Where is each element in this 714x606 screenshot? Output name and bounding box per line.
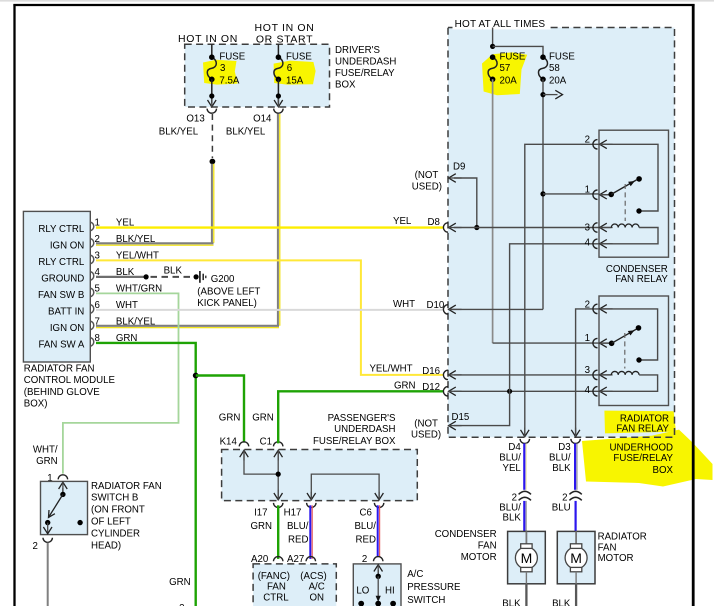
module pin 7 (IGN ON) — [50, 317, 156, 334]
radiator fan switch B box — [41, 481, 88, 534]
wire YEL/WHT pin 3 to D16 — [96, 260, 444, 375]
svg-text:HOT IN ON: HOT IN ON — [255, 22, 315, 34]
splice dot at G200 — [194, 274, 199, 279]
inline connector 2 on radiator motor wire — [562, 491, 582, 503]
radiator fan relay pin 1 — [585, 333, 613, 348]
svg-text:YEL: YEL — [393, 216, 412, 227]
wire radiator relay pin 2 down to D3 — [576, 309, 599, 436]
label UNDERHOOD FUSE/RELAY BOX (highlighted) — [609, 442, 673, 476]
internal wiring K14/C1 to I17 — [240, 450, 283, 499]
battery feed wire into fuse 57 — [492, 28, 494, 47]
wire condenser relay pin 2 down to D4 — [525, 144, 599, 436]
svg-text:I17: I17 — [254, 508, 267, 519]
svg-text:RLY CTRL: RLY CTRL — [38, 224, 85, 235]
connector O13 exit of driver's box — [207, 99, 216, 113]
fuse 3 (7.5A) — [207, 44, 216, 103]
svg-text:USED): USED) — [412, 182, 442, 193]
junction dot fuse 58 to condenser relay pin 1 — [540, 191, 545, 196]
condenser fan relay pin 1 — [585, 185, 613, 200]
svg-text:OR START: OR START — [256, 33, 313, 45]
radiator fan motor — [557, 531, 595, 606]
connector D3 at box bottom — [571, 439, 580, 444]
svg-text:RADIATOR FAN: RADIATOR FAN — [24, 363, 95, 374]
module pin 2 (IGN ON) — [50, 234, 156, 251]
label DRIVER'S UNDERDASH FUSE/RELAY BOX — [335, 45, 396, 91]
svg-text:BLU/: BLU/ — [549, 453, 571, 464]
svg-text:3: 3 — [585, 365, 590, 376]
svg-text:UNDERHOOD: UNDERHOOD — [609, 442, 673, 453]
condenser fan relay pin 2 — [585, 135, 613, 150]
wire BLU to radiator fan motor — [574, 501, 576, 531]
connector D4 at box bottom — [520, 439, 529, 444]
fuse 57 value label — [500, 52, 526, 87]
module pin 4 (GROUND) — [41, 267, 135, 284]
label D4 / BLU/YEL — [499, 442, 521, 474]
label CONDENSER FAN RELAY — [606, 264, 668, 285]
connector D9 (not used) — [449, 174, 462, 183]
svg-text:(NOT: (NOT — [415, 170, 439, 181]
radiator fan switch B internals — [43, 482, 82, 534]
svg-text:FAN RELAY: FAN RELAY — [616, 423, 669, 434]
wire BLU/RED H17 to A27 — [309, 505, 311, 559]
junction dot above fuse 57 — [490, 44, 495, 49]
svg-text:FAN RELAY: FAN RELAY — [615, 274, 668, 285]
svg-text:2: 2 — [33, 541, 38, 552]
svg-text:HEAD): HEAD) — [91, 540, 121, 551]
svg-text:4: 4 — [585, 385, 591, 396]
svg-text:BOX: BOX — [653, 465, 674, 476]
A/C pressure switch box — [353, 564, 401, 606]
module pin 1 (RLY CTRL) — [38, 218, 134, 235]
svg-text:RADIATOR FAN: RADIATOR FAN — [91, 481, 162, 492]
passenger's underdash fuse/relay box outline — [222, 450, 418, 501]
wire BLK dashed to G200 — [151, 276, 193, 278]
svg-text:1: 1 — [585, 333, 590, 344]
label BLU/BLK below connector (condenser) — [499, 502, 521, 523]
labels (FANC) FAN CTRL / (ACS) A/C ON — [258, 571, 327, 604]
svg-text:CONDENSER: CONDENSER — [435, 529, 497, 540]
svg-text:IGN ON: IGN ON — [50, 241, 84, 252]
svg-text:(ABOVE LEFT: (ABOVE LEFT — [197, 287, 260, 298]
condenser fan motor — [508, 531, 546, 606]
svg-text:RADIATOR: RADIATOR — [598, 532, 647, 543]
svg-text:FUSE: FUSE — [286, 52, 312, 63]
A/C pressure switch internals — [358, 565, 396, 606]
labels LO / HI — [356, 585, 394, 596]
svg-text:DRIVER'S: DRIVER'S — [335, 45, 380, 56]
svg-text:BLK: BLK — [552, 598, 571, 606]
connector D8 — [443, 223, 461, 232]
wire D8 to condenser fan relay pin 3 — [454, 227, 599, 229]
svg-text:FUSE: FUSE — [500, 52, 526, 63]
svg-text:FAN: FAN — [267, 582, 286, 593]
svg-text:GRN: GRN — [394, 380, 416, 391]
svg-text:15A: 15A — [286, 75, 304, 86]
connector C6 — [374, 503, 383, 508]
radiator fan relay coil — [600, 371, 658, 391]
module pin 5 (FAN SW B) — [38, 284, 162, 301]
top gray strip — [0, 0, 714, 2]
svg-text:GRN: GRN — [169, 577, 191, 588]
svg-text:BLU/: BLU/ — [287, 521, 309, 532]
svg-text:D9: D9 — [453, 162, 465, 173]
svg-text:OF LEFT: OF LEFT — [91, 517, 131, 528]
svg-text:20A: 20A — [549, 75, 567, 86]
wire WHT/GRN pin 5 to radiator fan switch B — [63, 293, 179, 473]
label YEL/WHT / D16 — [369, 364, 440, 378]
connector O14 exit of driver's box — [274, 99, 283, 113]
wire to fuse 58 — [493, 46, 543, 57]
connector A20 — [274, 557, 283, 562]
label RADIATOR FAN CONTROL MODULE (BEHIND GLOVE BOX) — [24, 363, 116, 409]
splice dot on O13 wire — [210, 159, 216, 165]
connector pin 2 of radiator fan switch B — [43, 538, 52, 543]
svg-text:CTRL: CTRL — [263, 592, 289, 603]
svg-text:YEL/WHT: YEL/WHT — [369, 364, 412, 375]
svg-text:BLK/YEL: BLK/YEL — [116, 234, 156, 245]
svg-text:HI: HI — [385, 585, 395, 596]
svg-text:K14: K14 — [220, 437, 238, 448]
wire GRN C1 riser to D12 — [278, 391, 443, 443]
module pin 6 (BATT IN) — [48, 300, 138, 317]
ground G200 symbol — [200, 271, 206, 283]
internal wiring H17 to C6 bridge — [307, 474, 383, 500]
svg-text:MOTOR: MOTOR — [598, 553, 634, 564]
radiator fan relay box — [599, 296, 669, 406]
svg-text:C1: C1 — [260, 437, 272, 448]
wire BLU/RED C6 to A/C pressure switch — [377, 505, 379, 556]
svg-text:BLK/YEL: BLK/YEL — [159, 127, 199, 138]
splice dot on ground wire — [144, 274, 149, 279]
svg-text:BLK/YEL: BLK/YEL — [116, 317, 156, 328]
wire fuse 58 output down — [542, 79, 544, 309]
wire BLK/YEL from O14 to module pin 7 — [96, 114, 280, 328]
wire BLU/YEL from D4 — [523, 443, 525, 489]
svg-text:M: M — [521, 550, 533, 566]
label RADIATOR FAN RELAY (highlighted) — [616, 414, 669, 435]
svg-text:(NOT: (NOT — [414, 419, 438, 430]
fuse 6 value label — [286, 52, 312, 87]
svg-text:FUSE: FUSE — [549, 52, 575, 63]
svg-text:(ON FRONT: (ON FRONT — [91, 505, 145, 516]
label RADIATOR FAN MOTOR — [598, 532, 647, 565]
svg-text:A/C: A/C — [407, 569, 423, 580]
yellow highlight over UNDERHOOD FUSE/RELAY BOX label — [582, 430, 713, 487]
label PASSENGER'S UNDERDASH FUSE/RELAY BOX — [313, 413, 396, 447]
svg-text:M: M — [570, 550, 582, 566]
condenser fan relay internal contact wiring — [600, 144, 658, 221]
svg-text:USED): USED) — [411, 430, 441, 441]
svg-text:HOT AT ALL TIMES: HOT AT ALL TIMES — [455, 19, 546, 30]
svg-text:58: 58 — [549, 63, 560, 74]
condenser fan relay box — [599, 130, 669, 257]
svg-text:3: 3 — [585, 222, 590, 233]
connector pin 1 of radiator fan switch B — [58, 475, 67, 480]
svg-text:3: 3 — [220, 63, 225, 74]
svg-text:57: 57 — [500, 63, 511, 74]
label HOT IN ON OR START (fuse 6) — [255, 22, 315, 45]
yellow highlight over fuse 6 — [274, 61, 316, 85]
fuse 57 (20A) — [488, 57, 497, 79]
label A/C PRESSURE SWITCH (BEHIND ...) — [407, 569, 461, 606]
svg-text:GRN: GRN — [219, 412, 241, 423]
wire D10 to fuse 58 line — [449, 308, 543, 310]
condenser fan relay pin 3 — [585, 222, 613, 233]
svg-text:LO: LO — [356, 585, 369, 596]
svg-text:BLK/YEL: BLK/YEL — [226, 127, 266, 138]
junction dot on GRN wire — [193, 373, 199, 379]
svg-text:BLU/: BLU/ — [354, 521, 376, 532]
svg-text:D4: D4 — [508, 442, 521, 453]
svg-text:BLU/: BLU/ — [499, 453, 521, 464]
wire GRN pin 8 down the page — [96, 343, 196, 606]
svg-text:1: 1 — [585, 185, 590, 196]
FANC/ACS dashed box — [253, 564, 336, 606]
condenser fan relay pin 4 — [585, 238, 613, 249]
svg-text:RED: RED — [356, 535, 376, 546]
yellow highlight over fuse 3 — [203, 60, 238, 85]
svg-text:FAN: FAN — [478, 541, 497, 552]
junction dot on D12 line — [507, 389, 512, 394]
connector A27 — [306, 557, 315, 562]
exit arrow D3 — [571, 430, 580, 437]
radiator fan relay pin 3 — [585, 365, 613, 380]
svg-text:FAN SW B: FAN SW B — [38, 290, 84, 301]
label CONDENSER FAN MOTOR — [435, 529, 497, 563]
label (NOT USED) at D15 — [411, 419, 441, 441]
svg-text:7: 7 — [95, 317, 100, 328]
svg-text:WHT/: WHT/ — [33, 445, 58, 456]
connector D16 — [443, 370, 461, 379]
svg-text:(ACS): (ACS) — [300, 571, 326, 582]
svg-text:6: 6 — [287, 63, 292, 74]
svg-text:UNDERDASH: UNDERDASH — [334, 424, 395, 435]
wire D16 to radiator fan relay pin 3 — [454, 374, 599, 376]
label RADIATOR FAN SWITCH B (ON FRONT OF LEFT CYLINDER HEAD) — [91, 481, 162, 552]
svg-text:CYLINDER: CYLINDER — [91, 528, 140, 539]
module pin 8 (FAN SW A) — [39, 333, 138, 350]
fuse 58 value label — [549, 52, 575, 87]
svg-text:FAN SW A: FAN SW A — [39, 340, 85, 351]
wire condenser relay pin 4 down to D12 line — [510, 244, 599, 391]
wire D9 down to D8 net — [454, 178, 477, 228]
radiator fan relay pin 2 — [585, 300, 613, 314]
svg-text:PASSENGER'S: PASSENGER'S — [328, 413, 396, 424]
svg-text:GROUND: GROUND — [41, 274, 84, 285]
label BLU/RED (H17 wire) — [287, 521, 309, 546]
svg-text:D16: D16 — [422, 366, 440, 377]
connector D10 — [443, 305, 461, 314]
svg-text:SWITCH B: SWITCH B — [91, 493, 138, 504]
wire GRN I17 to A20 — [277, 505, 279, 559]
svg-text:PRESSURE: PRESSURE — [407, 582, 461, 593]
label BLU/RED (C6 wire) — [354, 521, 376, 546]
wire GRN branch to connector K14 — [196, 376, 244, 443]
module pin 3 (RLY CTRL) — [38, 251, 159, 268]
label WHT / D10 — [393, 299, 445, 311]
svg-text:ON: ON — [310, 592, 325, 603]
svg-text:2: 2 — [585, 135, 590, 146]
connector K14 — [239, 442, 248, 447]
radiator fan relay pin 4 — [585, 385, 613, 396]
svg-text:IGN ON: IGN ON — [50, 323, 84, 334]
connector pin 2 of A/C pressure switch — [374, 557, 383, 562]
svg-text:O13: O13 — [186, 114, 204, 125]
label (NOT USED) at D9 — [412, 170, 442, 193]
svg-text:20A: 20A — [500, 75, 518, 86]
connector C1 — [274, 442, 283, 447]
svg-text:BLU: BLU — [552, 502, 571, 513]
wire D12 to radiator fan relay pin 4 — [454, 390, 599, 392]
svg-text:G200: G200 — [211, 274, 235, 285]
svg-text:UNDERDASH: UNDERDASH — [335, 56, 396, 67]
wire YEL pin 1 to D8 — [96, 226, 444, 228]
condenser fan relay coil — [600, 224, 658, 244]
svg-text:BLK: BLK — [552, 463, 571, 474]
yellow highlight over RADIATOR FAN RELAY label — [604, 411, 676, 434]
label GRN / D12 — [394, 380, 440, 393]
wire BLK/YEL from splice to module pin 2 — [96, 164, 214, 245]
svg-text:RED: RED — [288, 535, 308, 546]
wire BLU/BLK from D3 — [574, 443, 576, 489]
svg-text:D15: D15 — [452, 412, 470, 423]
exit arrow D4 — [521, 430, 530, 437]
svg-text:CONTROL MODULE: CONTROL MODULE — [24, 375, 116, 386]
radiator fan control module box — [23, 211, 90, 362]
label HOT AT ALL TIMES — [453, 19, 551, 30]
svg-text:BLK: BLK — [502, 598, 521, 606]
label D3 / BLU/BLK — [549, 442, 571, 474]
connector D12 — [443, 387, 461, 396]
svg-text:GRN: GRN — [251, 521, 273, 532]
svg-text:A/C: A/C — [309, 582, 325, 593]
svg-text:4: 4 — [585, 238, 591, 249]
svg-text:2: 2 — [95, 234, 100, 245]
wire O13 dashed segment down to splice — [211, 114, 213, 158]
svg-text:FUSE/RELAY: FUSE/RELAY — [613, 453, 673, 464]
svg-text:(BEHIND GLOVE: (BEHIND GLOVE — [24, 387, 100, 398]
driver's underdash fuse/relay box border — [185, 44, 330, 107]
junction dot D9/D8 net — [474, 225, 479, 230]
svg-text:HOT IN ON: HOT IN ON — [178, 33, 238, 45]
svg-text:KICK PANEL): KICK PANEL) — [197, 298, 257, 309]
svg-text:BOX: BOX — [335, 80, 356, 91]
svg-text:D10: D10 — [427, 300, 445, 311]
svg-text:H17: H17 — [284, 508, 302, 519]
svg-text:FUSE/RELAY: FUSE/RELAY — [335, 68, 395, 79]
driver's underdash fuse/relay box fill — [185, 44, 330, 107]
svg-text:FUSE/RELAY BOX: FUSE/RELAY BOX — [313, 436, 396, 447]
svg-text:O14: O14 — [253, 114, 272, 125]
wire from switch pin 2 to page bottom — [47, 543, 49, 606]
radiator fan relay internal contact wiring — [600, 309, 658, 369]
wire BLU/BLK to condenser fan motor — [523, 501, 525, 531]
svg-text:D8: D8 — [428, 217, 440, 228]
svg-text:BOX): BOX) — [24, 399, 48, 410]
label WHT/GRN (switch wire) — [33, 445, 58, 468]
svg-text:(FANC): (FANC) — [258, 571, 290, 582]
yellow highlight over fuse 57 — [482, 52, 527, 95]
svg-text:GRN: GRN — [252, 412, 274, 423]
svg-text:BATT IN: BATT IN — [48, 307, 84, 318]
connector H17 — [307, 503, 316, 508]
svg-text:MOTOR: MOTOR — [461, 552, 497, 563]
svg-text:2: 2 — [585, 300, 590, 311]
junction dot inside passenger box — [276, 472, 281, 477]
wire fuse 58 to condenser fan relay pin 1 — [543, 193, 599, 195]
fuse 58 (20A) — [538, 57, 547, 79]
svg-text:WHT: WHT — [393, 299, 415, 310]
svg-text:YEL: YEL — [502, 463, 521, 474]
svg-text:FUSE: FUSE — [219, 52, 245, 63]
wire D15 branch — [454, 391, 510, 425]
underhood fuse/relay box border — [448, 28, 675, 438]
connector I17 — [274, 503, 283, 508]
label G200 (ABOVE LEFT KICK PANEL) — [197, 274, 260, 309]
svg-text:SWITCH: SWITCH — [407, 595, 445, 606]
svg-text:FAN: FAN — [598, 542, 617, 553]
fuse 6 (15A) — [274, 44, 283, 103]
connector D15 (not used) — [449, 421, 462, 430]
inline connector 2 on condenser motor wire — [512, 491, 531, 503]
svg-text:GRN: GRN — [36, 456, 58, 467]
wire BLK pin 4 to ground splice — [96, 276, 146, 278]
wire WHT pin 6 to D10 — [96, 309, 444, 311]
label YEL / D8 — [393, 216, 440, 228]
svg-text:BLK: BLK — [502, 512, 521, 523]
svg-text:7.5A: 7.5A — [219, 75, 239, 86]
fuse 3 value label — [219, 52, 245, 87]
svg-text:RLY CTRL: RLY CTRL — [38, 257, 85, 268]
svg-text:D3: D3 — [558, 442, 570, 453]
underhood fuse/relay box fill — [448, 28, 675, 438]
junction dot below fuse 58 with stub arrow — [540, 90, 562, 99]
wire fuse 57 output down to radiator fan relay pin 1 — [493, 79, 599, 343]
svg-text:BLK: BLK — [164, 265, 183, 276]
svg-text:C6: C6 — [360, 508, 372, 519]
